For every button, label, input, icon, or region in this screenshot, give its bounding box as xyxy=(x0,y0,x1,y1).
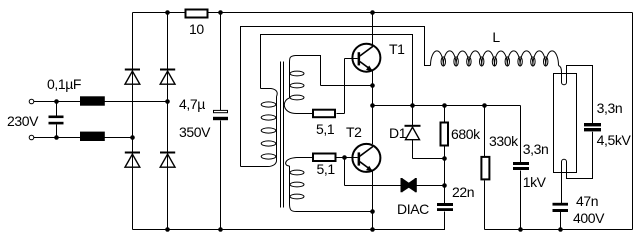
svg-text:47n: 47n xyxy=(576,193,598,209)
svg-text:3,3n: 3,3n xyxy=(597,100,623,116)
svg-text:330k: 330k xyxy=(489,133,519,149)
svg-text:10: 10 xyxy=(189,21,204,37)
svg-text:L: L xyxy=(492,29,500,45)
svg-text:T1: T1 xyxy=(389,41,405,57)
svg-text:4,7µ: 4,7µ xyxy=(179,96,205,112)
svg-text:4,5kV: 4,5kV xyxy=(597,132,632,148)
svg-text:5,1: 5,1 xyxy=(317,161,336,177)
svg-text:T2: T2 xyxy=(346,124,362,140)
svg-text:DIAC: DIAC xyxy=(397,201,429,217)
svg-text:0,1µF: 0,1µF xyxy=(47,76,81,92)
svg-text:400V: 400V xyxy=(573,210,605,226)
svg-text:1kV: 1kV xyxy=(523,174,547,190)
svg-text:D1: D1 xyxy=(389,125,407,141)
svg-text:3,3n: 3,3n xyxy=(523,141,549,157)
svg-text:5,1: 5,1 xyxy=(316,121,335,137)
svg-text:680k: 680k xyxy=(451,126,481,142)
svg-text:350V: 350V xyxy=(179,124,211,140)
svg-text:230V: 230V xyxy=(7,113,39,129)
svg-text:22n: 22n xyxy=(452,184,474,200)
